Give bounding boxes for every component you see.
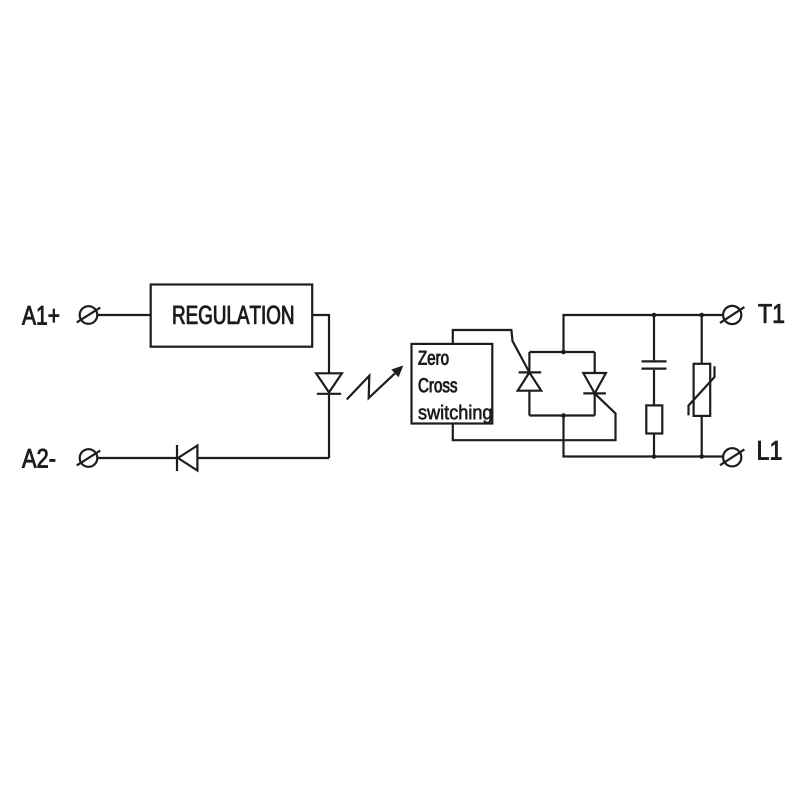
LED D2 anode triangle xyxy=(316,373,342,392)
wire triac bottom to L1 rail xyxy=(564,416,724,457)
wire A1 to regulation box xyxy=(97,314,150,316)
label A1+ xyxy=(22,306,59,325)
wire LED cathode down to A2 line xyxy=(328,395,330,458)
label A2- xyxy=(22,449,55,468)
wire gate top: zero cross box to Q1 gate xyxy=(453,330,530,372)
wire triac bridge bottom xyxy=(529,414,594,416)
wire triac bridge top xyxy=(529,351,594,353)
label switching xyxy=(419,405,492,424)
wire diode to LED branch xyxy=(197,457,329,459)
thyristor Q1 triangle xyxy=(518,372,542,390)
thyristor Q2 triangle xyxy=(583,373,606,393)
capacitor C1 plate bottom xyxy=(642,368,667,370)
terminal L1 xyxy=(720,448,744,466)
node junction resistor bottom xyxy=(652,454,657,459)
wire A2 terminal to diode xyxy=(97,457,177,459)
node junction triac bottom xyxy=(561,413,566,418)
wire Q2 cathode lead xyxy=(594,393,596,415)
LED D2 cathode bar xyxy=(317,393,341,395)
node junction varistor top xyxy=(699,313,704,318)
label L1 xyxy=(758,441,781,460)
thyristor Q1 cathode bar xyxy=(519,371,542,373)
label REGULATION xyxy=(174,306,293,324)
light emission arrow xyxy=(347,366,404,400)
resistor R1 xyxy=(646,405,662,433)
zero cross box U2 xyxy=(412,344,493,424)
varistor RV1 body xyxy=(694,364,711,416)
label Zero xyxy=(418,351,448,365)
label T1 xyxy=(759,304,784,323)
wire gate bottom: zero cross box to Q2 gate xyxy=(453,394,616,440)
node junction cap top xyxy=(652,313,657,318)
thyristor Q2 cathode bar xyxy=(583,392,606,394)
node junction varistor bottom xyxy=(699,454,704,459)
wire Q2 anode lead xyxy=(594,352,596,373)
wire varistor top lead xyxy=(701,315,703,364)
wire Q1 anode lead xyxy=(528,391,530,416)
diode D1 cathode bar xyxy=(176,445,178,471)
terminal T1 xyxy=(720,306,744,324)
capacitor C1 plate top xyxy=(642,360,667,362)
wire regulation output down to LED xyxy=(312,315,329,373)
terminal A2- xyxy=(77,449,101,467)
terminal A1+ xyxy=(77,306,101,324)
regulation box U1 xyxy=(151,285,313,347)
wire resistor to L1 rail xyxy=(653,434,655,457)
diode D1 triangle xyxy=(178,446,197,471)
wire varistor to L1 rail xyxy=(701,416,703,457)
label Cross xyxy=(419,378,457,392)
varistor RV1 diagonal stroke xyxy=(689,366,715,415)
wire capacitor to resistor xyxy=(653,370,655,406)
wire Q1 cathode lead xyxy=(528,352,530,372)
wire top rail from triac to T1 xyxy=(564,315,724,352)
node junction triac top xyxy=(561,350,566,355)
wire capacitor top lead xyxy=(653,315,655,360)
